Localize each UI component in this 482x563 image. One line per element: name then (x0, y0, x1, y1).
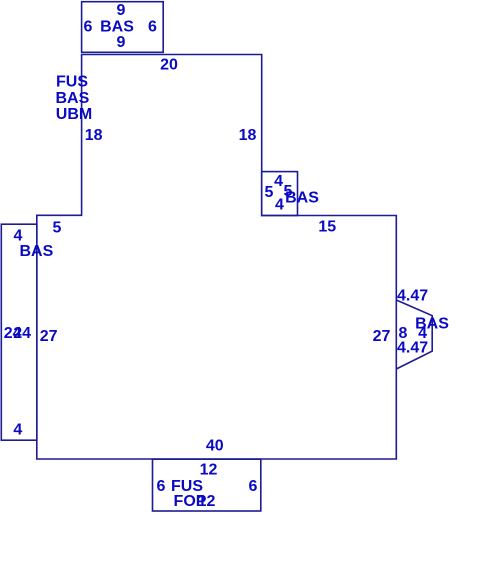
svg-text:27: 27 (373, 328, 391, 345)
svg-text:18: 18 (239, 127, 257, 144)
wall: top BAS 9x6 rectangle (82, 2, 164, 53)
svg-text:4: 4 (274, 173, 283, 190)
svg-text:12: 12 (198, 493, 216, 510)
svg-text:5: 5 (265, 184, 274, 201)
svg-text:9: 9 (117, 2, 126, 19)
svg-text:12: 12 (200, 462, 218, 479)
svg-text:40: 40 (206, 438, 224, 455)
wall: bottom FUS/FOP 12x6 rectangle (153, 459, 261, 511)
wall: small BAS 4x5 rectangle (262, 172, 298, 216)
svg-text:FUS: FUS (56, 73, 88, 90)
wall: right bay window (396, 300, 432, 369)
svg-text:24: 24 (13, 325, 31, 342)
svg-text:UBM: UBM (56, 106, 92, 123)
wall: left BAS 4x24 strip (1, 224, 37, 440)
svg-text:4: 4 (13, 422, 22, 439)
svg-text:BAS: BAS (100, 19, 134, 36)
svg-text:20: 20 (160, 57, 178, 74)
wire (37, 55, 397, 460)
svg-text:6: 6 (157, 478, 166, 495)
svg-text:5: 5 (53, 220, 62, 237)
svg-text:BAS: BAS (285, 189, 319, 206)
svg-text:4: 4 (275, 197, 284, 214)
svg-text:BAS: BAS (20, 243, 54, 260)
svg-text:6: 6 (249, 478, 258, 495)
svg-text:6: 6 (84, 19, 93, 36)
svg-text:4.47: 4.47 (397, 339, 428, 356)
svg-text:18: 18 (85, 127, 103, 144)
svg-text:9: 9 (117, 34, 126, 51)
svg-text:4: 4 (14, 228, 23, 245)
svg-text:27: 27 (40, 328, 58, 345)
svg-text:BAS: BAS (56, 90, 90, 107)
svg-text:4.47: 4.47 (397, 287, 428, 304)
svg-text:15: 15 (318, 219, 336, 236)
svg-text:6: 6 (148, 19, 157, 36)
